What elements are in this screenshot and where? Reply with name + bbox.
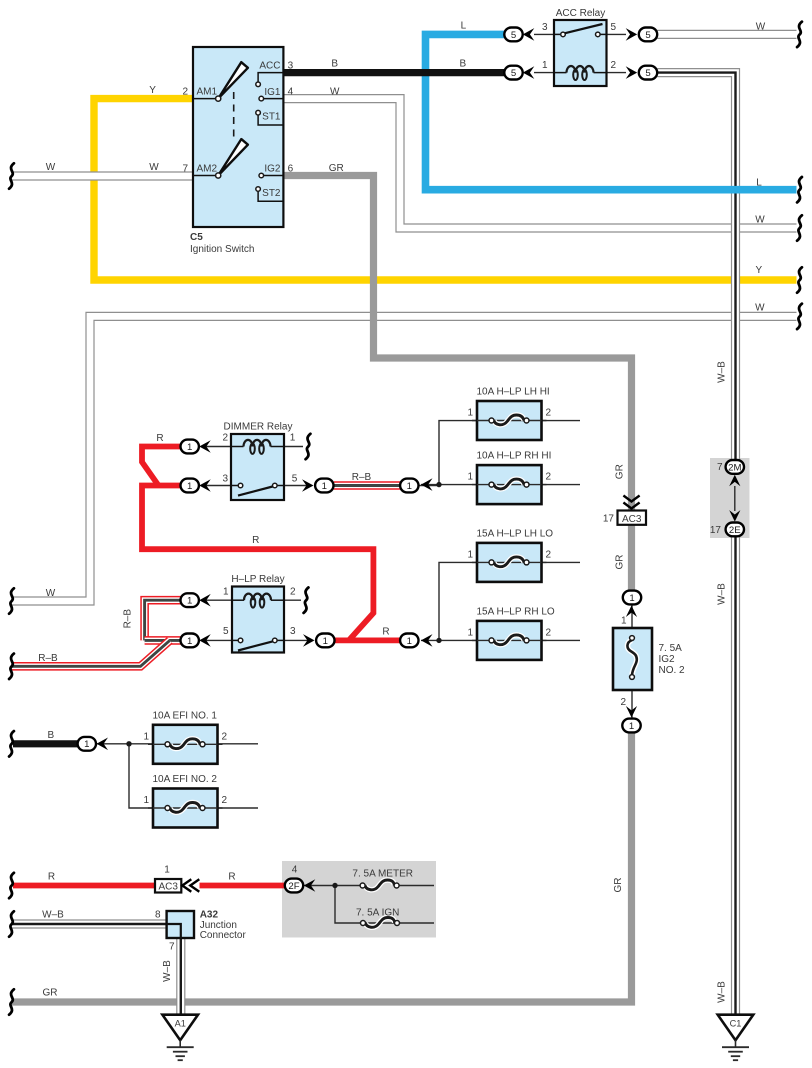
svg-text:1: 1 [223, 586, 229, 597]
svg-text:DIMMER Relay: DIMMER Relay [224, 422, 293, 433]
svg-text:5: 5 [645, 30, 650, 41]
svg-text:1: 1 [629, 721, 634, 732]
svg-text:1: 1 [187, 636, 192, 647]
svg-text:A1: A1 [175, 1019, 186, 1029]
svg-text:5: 5 [611, 22, 617, 33]
svg-text:1: 1 [407, 636, 412, 647]
svg-text:15A H–LP LH LO: 15A H–LP LH LO [477, 528, 554, 539]
svg-text:1: 1 [621, 616, 627, 627]
svg-text:IG1: IG1 [264, 87, 281, 98]
svg-text:W: W [755, 215, 765, 226]
svg-text:7. 5A METER: 7. 5A METER [352, 869, 413, 880]
svg-text:1: 1 [467, 408, 473, 419]
svg-text:17: 17 [603, 514, 615, 525]
svg-text:10A H–LP RH HI: 10A H–LP RH HI [477, 451, 552, 462]
svg-text:GR: GR [43, 988, 58, 999]
svg-text:Ignition Switch: Ignition Switch [190, 244, 254, 255]
svg-text:W–B: W–B [162, 960, 173, 982]
svg-text:B: B [331, 59, 338, 70]
svg-text:W–B: W–B [717, 981, 728, 1003]
svg-text:R–B: R–B [122, 609, 133, 629]
svg-text:2: 2 [620, 697, 626, 708]
svg-text:3: 3 [288, 60, 294, 71]
svg-text:5: 5 [223, 626, 229, 637]
svg-text:B: B [459, 59, 466, 70]
svg-text:6: 6 [288, 163, 294, 174]
svg-text:2E: 2E [729, 525, 741, 536]
svg-text:7: 7 [717, 462, 723, 473]
svg-text:Y: Y [755, 265, 762, 276]
svg-text:Y: Y [149, 85, 156, 96]
svg-text:5: 5 [292, 474, 298, 485]
svg-text:W: W [330, 87, 340, 98]
svg-text:1: 1 [164, 864, 170, 875]
svg-text:R–B: R–B [38, 653, 58, 664]
svg-text:W: W [149, 162, 159, 173]
svg-text:17: 17 [710, 525, 722, 536]
svg-text:NO. 2: NO. 2 [659, 665, 686, 676]
svg-text:R–B: R–B [352, 472, 372, 483]
svg-text:1: 1 [629, 593, 634, 604]
svg-text:W: W [756, 22, 766, 33]
svg-text:W–B: W–B [42, 910, 64, 921]
svg-text:5: 5 [511, 68, 516, 79]
svg-text:1: 1 [407, 481, 412, 492]
svg-text:7. 5A: 7. 5A [659, 643, 683, 654]
svg-text:L: L [756, 178, 762, 189]
svg-text:R: R [382, 627, 389, 638]
svg-text:GR: GR [615, 464, 626, 479]
svg-text:AM2: AM2 [197, 163, 218, 174]
svg-text:1: 1 [187, 481, 192, 492]
svg-text:AC3: AC3 [158, 881, 178, 892]
svg-text:ACC Relay: ACC Relay [556, 8, 605, 19]
svg-text:1: 1 [187, 596, 192, 607]
svg-text:1: 1 [143, 731, 149, 742]
svg-text:2F: 2F [288, 881, 299, 892]
svg-text:IG2: IG2 [659, 654, 676, 665]
svg-text:7. 5A IGN: 7. 5A IGN [356, 908, 399, 919]
svg-text:GR: GR [329, 163, 344, 174]
svg-text:1: 1 [323, 636, 328, 647]
svg-text:1: 1 [467, 472, 473, 483]
svg-text:4: 4 [292, 864, 298, 875]
svg-text:GR: GR [615, 555, 626, 570]
svg-text:3: 3 [542, 22, 548, 33]
svg-text:AM1: AM1 [197, 87, 218, 98]
svg-text:10A EFI NO. 1: 10A EFI NO. 1 [153, 710, 218, 721]
svg-text:R: R [228, 872, 235, 883]
svg-text:1: 1 [467, 549, 473, 560]
svg-text:ACC: ACC [259, 60, 280, 71]
svg-text:ST1: ST1 [262, 112, 281, 123]
svg-text:W: W [755, 303, 765, 314]
svg-text:2M: 2M [728, 462, 741, 473]
svg-text:B: B [47, 730, 54, 741]
svg-text:C1: C1 [730, 1019, 742, 1029]
svg-text:2: 2 [546, 472, 552, 483]
svg-text:W: W [46, 162, 56, 173]
svg-text:W–B: W–B [717, 361, 728, 383]
svg-text:IG2: IG2 [264, 163, 281, 174]
svg-text:Connector: Connector [200, 930, 247, 941]
svg-text:1: 1 [84, 739, 89, 750]
svg-text:R: R [48, 872, 55, 883]
svg-text:1: 1 [290, 433, 296, 444]
svg-text:10A H–LP LH HI: 10A H–LP LH HI [477, 387, 550, 398]
svg-text:2: 2 [222, 433, 228, 444]
svg-text:1: 1 [187, 442, 192, 453]
svg-text:7: 7 [169, 941, 175, 952]
svg-text:AC3: AC3 [622, 514, 642, 525]
svg-text:H–LP Relay: H–LP Relay [231, 574, 284, 585]
svg-text:R: R [156, 433, 163, 444]
svg-text:3: 3 [290, 626, 296, 637]
svg-text:W: W [46, 588, 56, 599]
svg-text:W–B: W–B [717, 583, 728, 605]
svg-text:GR: GR [613, 878, 624, 893]
svg-text:2: 2 [546, 408, 552, 419]
svg-text:R: R [252, 535, 259, 546]
svg-text:4: 4 [288, 87, 294, 98]
svg-text:1: 1 [322, 481, 327, 492]
svg-text:2: 2 [290, 586, 296, 597]
svg-text:2: 2 [222, 731, 228, 742]
svg-text:C5: C5 [190, 232, 203, 243]
svg-text:7: 7 [182, 163, 188, 174]
svg-text:2: 2 [222, 795, 228, 806]
svg-text:5: 5 [645, 68, 650, 79]
svg-text:5: 5 [511, 30, 516, 41]
svg-text:2: 2 [546, 549, 552, 560]
svg-text:ST2: ST2 [262, 188, 281, 199]
svg-text:3: 3 [222, 474, 228, 485]
svg-text:2: 2 [611, 60, 617, 71]
svg-text:1: 1 [542, 60, 548, 71]
svg-text:2: 2 [546, 627, 552, 638]
svg-text:15A H–LP RH LO: 15A H–LP RH LO [477, 606, 555, 617]
svg-text:8: 8 [155, 910, 161, 921]
svg-text:1: 1 [143, 795, 149, 806]
svg-text:L: L [461, 21, 467, 32]
svg-text:1: 1 [467, 627, 473, 638]
svg-text:10A EFI NO. 2: 10A EFI NO. 2 [153, 774, 218, 785]
svg-text:2: 2 [182, 87, 188, 98]
